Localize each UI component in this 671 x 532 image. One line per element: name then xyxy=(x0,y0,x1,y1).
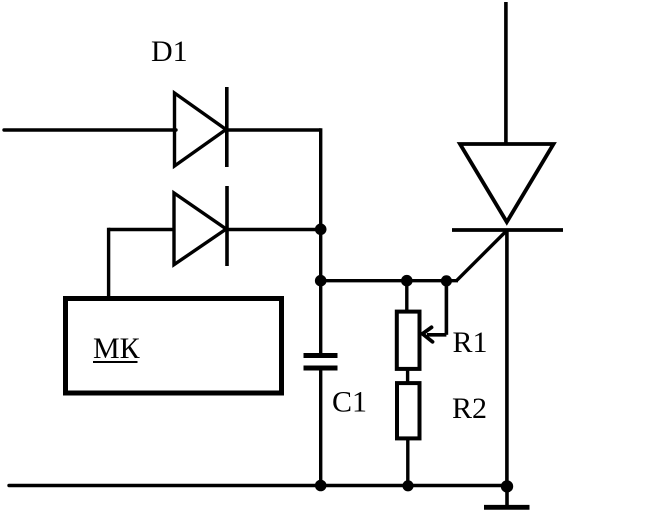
svg-text:R1: R1 xyxy=(453,326,488,359)
wire: horizontal gate net (bus to diagonal) xyxy=(321,279,458,282)
node: junction dot at R1 top xyxy=(401,275,413,287)
label MK (underlined) xyxy=(93,332,141,365)
wire: R1 bottom to R2 top xyxy=(406,369,409,383)
resistor R2 body xyxy=(397,383,420,438)
svg-text:C1: C1 xyxy=(332,386,367,419)
diode D1a cathode bar xyxy=(225,87,229,167)
label D1 xyxy=(151,35,188,68)
triac U1 cathode bar xyxy=(452,228,563,232)
capacitor C1 bottom plate xyxy=(304,366,338,371)
capacitor C1 top plate xyxy=(304,353,338,358)
node: junction dot C1/ground rail xyxy=(315,480,327,492)
svg-text:R2: R2 xyxy=(452,392,487,425)
wire: dot to R1 top xyxy=(405,281,408,312)
svg-text:МК: МК xyxy=(93,332,141,365)
potentiometer R1 wiper arrowhead xyxy=(423,327,433,342)
wire: D1b cathode to vertical bus xyxy=(227,228,321,231)
potentiometer R1 wiper wire xyxy=(427,279,446,335)
label R2 xyxy=(452,392,487,425)
diode D1b cathode bar xyxy=(225,186,229,266)
node: junction dot D1b/bus xyxy=(315,224,327,236)
ground rail (bottom wire) xyxy=(9,484,507,487)
wire: triac anode from top edge xyxy=(504,2,508,144)
wire: triac cathode down to ground rail xyxy=(505,230,509,487)
node: junction dot at wiper branch xyxy=(441,275,452,286)
wire: AC input to D1a anode xyxy=(4,128,176,131)
node: junction dot triac/ground rail xyxy=(501,480,513,492)
label R1 xyxy=(453,326,488,359)
diode D1b triangle xyxy=(174,193,226,265)
diode D1a triangle xyxy=(175,93,227,166)
potentiometer R1 body xyxy=(397,312,420,369)
svg-text:D1: D1 xyxy=(151,35,188,68)
wire: D1a cathode to vertical bus xyxy=(227,128,321,131)
triac U1 triangle xyxy=(460,144,554,222)
node: junction dot bus/gate-wire xyxy=(315,275,327,287)
label C1 xyxy=(332,386,367,419)
wire: D1b input from MK xyxy=(109,228,174,296)
wire: C1 bottom plate to ground rail xyxy=(319,368,322,486)
wire: diagonal to triac gate xyxy=(457,232,506,281)
ground symbol xyxy=(484,486,530,507)
wire: vertical bus upper segment (D1a output down to C1 top plate) xyxy=(319,128,322,355)
MK box (microcontroller) xyxy=(66,299,282,394)
node: junction dot R2/ground rail xyxy=(402,480,413,491)
wire: R2 bottom to ground rail xyxy=(406,438,409,485)
